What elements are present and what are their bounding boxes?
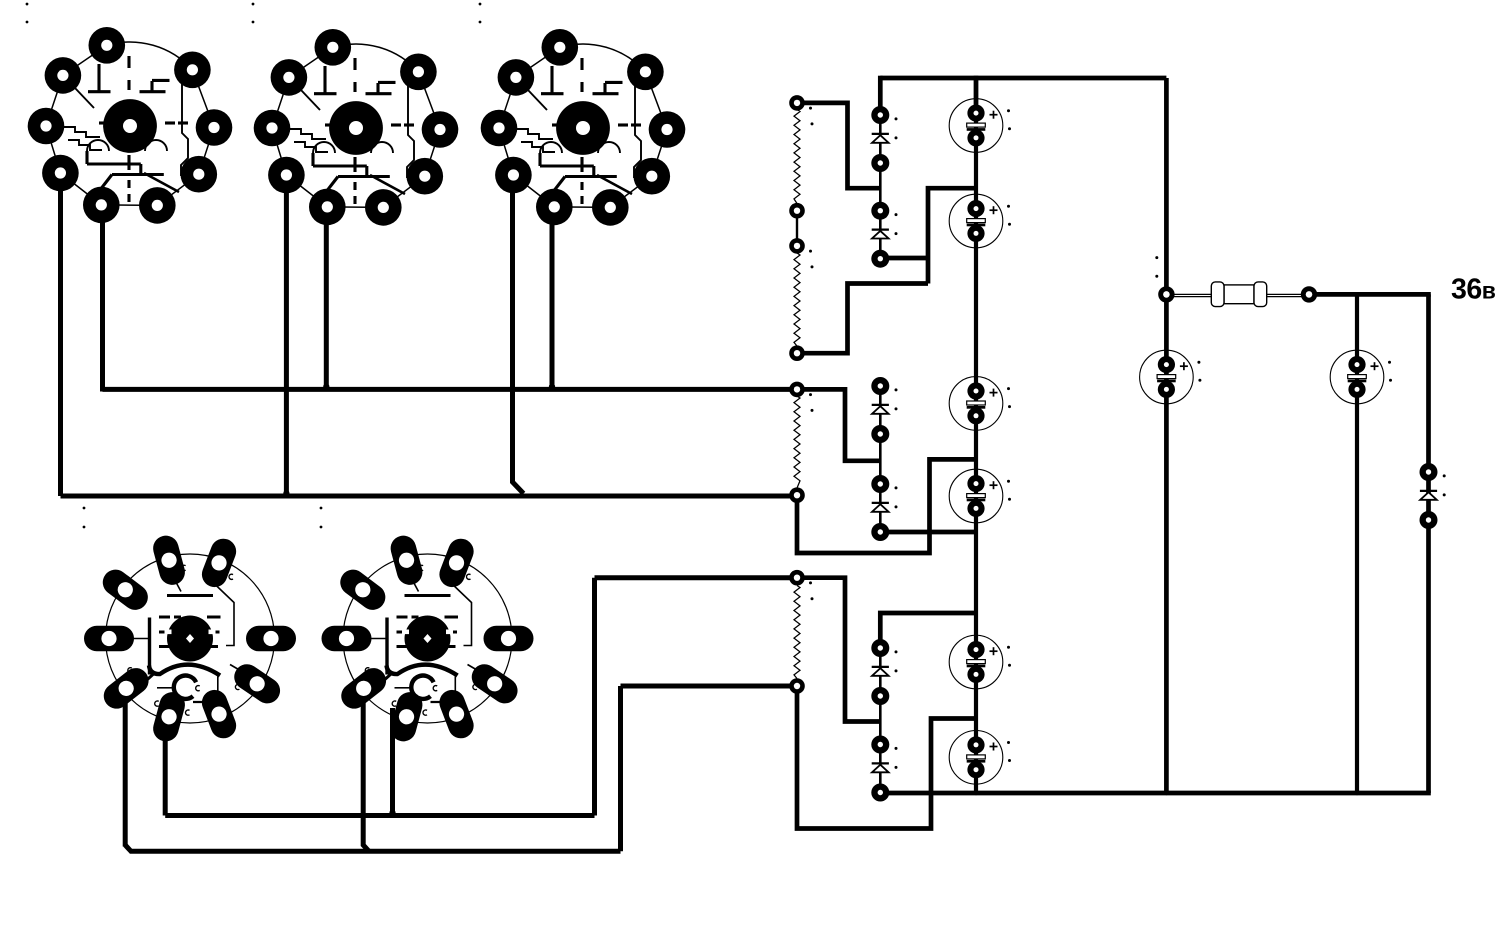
svg-text:36в: 36в: [1451, 274, 1496, 306]
